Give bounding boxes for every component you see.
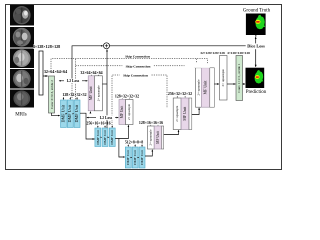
skip connection 1 dashed path xyxy=(51,59,208,69)
svg-text:128×16×16×16: 128×16×16×16 xyxy=(139,121,163,125)
svg-text:DMF Unit: DMF Unit xyxy=(103,130,107,145)
conv stride-2 block C1 xyxy=(49,76,56,113)
skip connection 2 dashed path xyxy=(76,59,185,99)
input volume slab xyxy=(39,51,43,95)
svg-text:DMF Unit: DMF Unit xyxy=(74,104,79,122)
svg-text:Ground Truth: Ground Truth xyxy=(243,9,271,14)
svg-text:Skip Connection: Skip Connection xyxy=(126,64,151,68)
wire slab to conv1 xyxy=(43,75,48,77)
wire pair0 out to final upsample xyxy=(214,83,219,85)
final 2x upsample box xyxy=(200,51,227,100)
wire trio3 out to pairC xyxy=(145,150,152,156)
decoder unit level-1: MF Unit + 2x upsample xyxy=(80,71,102,111)
wire skip level-1 to adder xyxy=(72,46,103,79)
Dice loss label and arrows xyxy=(246,44,266,49)
MRI image 5 xyxy=(10,90,34,108)
decoder unit top-right: 2x upsample + MF Unit xyxy=(185,63,214,107)
encoder DMF trio level 3 xyxy=(125,140,145,168)
svg-text:Skip Connection: Skip Connection xyxy=(125,54,150,58)
adder circle-plus xyxy=(104,43,110,49)
svg-text:32×64×64×64: 32×64×64×64 xyxy=(80,71,102,75)
skip connection 3 dashed path xyxy=(112,75,167,128)
L2 loss level-1 xyxy=(65,79,82,84)
svg-text:DMF Unit: DMF Unit xyxy=(140,150,144,165)
svg-text:DMF Unit: DMF Unit xyxy=(133,150,137,165)
encoder DMF trio level 2 xyxy=(86,121,115,146)
svg-text:L2 Loss: L2 Loss xyxy=(67,79,80,83)
wire final upsample to final conv xyxy=(227,83,235,85)
skip size label 128x64x64x64 xyxy=(185,63,210,68)
svg-text:L2 Loss: L2 Loss xyxy=(100,116,113,120)
MRI image 3 xyxy=(10,49,34,69)
decoder unit bottom: 2x upsample + MF Unit xyxy=(139,121,164,149)
svg-text:MF Unit: MF Unit xyxy=(182,106,187,121)
wire adder out to dice loss xyxy=(110,45,246,47)
svg-text:4×128×128×128: 4×128×128×128 xyxy=(227,51,250,55)
wire pairB out to pair0 xyxy=(192,108,199,115)
wire pair1 out xyxy=(102,83,107,85)
wire pairC out to pairB xyxy=(164,130,179,134)
outer frame xyxy=(6,5,282,170)
svg-text:2× upsample: 2× upsample xyxy=(96,85,100,102)
svg-text:2× upsample: 2× upsample xyxy=(175,105,179,122)
svg-text:MF Unit: MF Unit xyxy=(202,80,207,95)
svg-text:4×128×128×128: 4×128×128×128 xyxy=(33,44,60,49)
svg-text:32×64×64×64: 32×64×64×64 xyxy=(44,69,67,74)
svg-text:DMF Unit: DMF Unit xyxy=(96,130,100,145)
svg-text:Dice Loss: Dice Loss xyxy=(247,44,265,49)
svg-text:128×32×32×32: 128×32×32×32 xyxy=(62,93,86,97)
skip connection label 3 xyxy=(120,73,152,78)
svg-text:Skip Connection: Skip Connection xyxy=(123,74,148,78)
svg-text:2× upsample: 2× upsample xyxy=(196,79,200,96)
svg-text:2× upsample: 2× upsample xyxy=(127,103,131,120)
wire trio2 down to trio3 xyxy=(119,139,125,158)
svg-text:DMF Unit: DMF Unit xyxy=(126,150,130,165)
svg-text:MF Unit: MF Unit xyxy=(120,106,124,118)
svg-text:MF Unit: MF Unit xyxy=(156,131,160,143)
wire trio2 top to adder bottom xyxy=(106,50,108,128)
MRI image 4 xyxy=(10,69,34,89)
L2 loss level-2 xyxy=(98,115,115,120)
skip connections dashed xyxy=(51,54,210,128)
svg-text:32×128×128×128: 32×128×128×128 xyxy=(200,51,225,55)
wire conv1 to trio1 xyxy=(52,113,60,116)
MRI image 1 xyxy=(10,5,34,26)
svg-text:128×32×32×32: 128×32×32×32 xyxy=(115,95,139,99)
prediction image xyxy=(246,68,267,95)
skip connection label 1 xyxy=(122,54,154,59)
svg-text:256×32×32×32: 256×32×32×32 xyxy=(168,92,192,96)
svg-text:MRIs: MRIs xyxy=(15,113,26,118)
conv1 output size label 32x64x64x64 xyxy=(45,69,67,74)
wire trio1 out to trio2 xyxy=(80,113,95,139)
svg-text:MF Unit: MF Unit xyxy=(88,85,93,100)
decoder unit level-2: MF Unit + 2x upsample xyxy=(115,94,139,124)
ground truth image xyxy=(243,9,271,35)
svg-text:DMF Unit: DMF Unit xyxy=(110,130,114,145)
wire dashed drop to trio1 top xyxy=(71,83,73,99)
input size label 4x128x128x128 xyxy=(33,44,59,49)
final conv 1x1x1 box xyxy=(227,51,250,101)
wire final conv to prediction xyxy=(243,83,246,85)
encoder DMF trio level 1 xyxy=(60,93,86,128)
svg-text:DMF Unit: DMF Unit xyxy=(60,104,65,122)
svg-text:Prediction: Prediction xyxy=(246,90,267,95)
wire trio2 out to pair2 xyxy=(115,125,128,138)
skip connection label 2 xyxy=(122,64,154,69)
svg-text:2× upsample: 2× upsample xyxy=(149,129,153,146)
MRI input images group xyxy=(10,5,34,108)
losses xyxy=(59,35,266,120)
decoder unit mid-right: 2x upsample + MF Unit xyxy=(168,92,192,130)
wire branch up into pair1 xyxy=(89,112,91,114)
MRI image 2 xyxy=(10,27,34,48)
svg-text:DMF Unit: DMF Unit xyxy=(67,104,72,122)
svg-text:2× upsample: 2× upsample xyxy=(221,69,225,87)
svg-text:512×8×8×8: 512×8×8×8 xyxy=(125,141,143,145)
